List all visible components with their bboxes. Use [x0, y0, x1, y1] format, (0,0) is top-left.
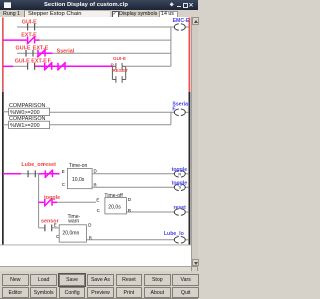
- svg-text:R: R: [128, 208, 131, 213]
- svg-text:EMC-E: EMC-E: [173, 18, 190, 24]
- svg-text:toggle: toggle: [44, 195, 60, 201]
- svg-text:reset: reset: [43, 162, 56, 168]
- svg-text:20,0s: 20,0s: [108, 204, 121, 210]
- svg-text:Sserial: Sserial: [57, 48, 75, 54]
- svg-text:GUI-E: GUI-E: [15, 59, 30, 65]
- svg-text:GUI-E: GUI-E: [113, 56, 126, 61]
- svg-text:E: E: [96, 198, 99, 203]
- svg-text:20,0mn: 20,0mn: [62, 231, 79, 237]
- svg-text:E: E: [54, 222, 57, 227]
- svg-text:%IW0>=200: %IW0>=200: [10, 110, 40, 116]
- svg-text:R: R: [94, 183, 97, 188]
- svg-text:P: P: [111, 62, 114, 67]
- svg-text:Lube_on: Lube_on: [21, 162, 43, 168]
- svg-text:EXT-E: EXT-E: [21, 32, 37, 38]
- svg-text:R: R: [89, 236, 92, 241]
- svg-text:E: E: [62, 169, 65, 174]
- svg-text:10,0s: 10,0s: [72, 177, 85, 183]
- svg-text:C: C: [97, 208, 100, 213]
- svg-text:%IW1>=200: %IW1>=200: [10, 123, 40, 129]
- svg-text:toggle: toggle: [172, 181, 188, 187]
- svg-text:COMPARISON: COMPARISON: [9, 103, 46, 109]
- svg-text:EXT-E: EXT-E: [31, 59, 47, 65]
- svg-text:Time-off: Time-off: [104, 193, 123, 199]
- svg-text:Time-on: Time-on: [69, 163, 88, 169]
- svg-text:Lube_lo: Lube_lo: [164, 231, 184, 237]
- svg-text:D: D: [88, 222, 91, 227]
- svg-text:reset: reset: [174, 205, 187, 211]
- svg-text:GUI-E: GUI-E: [16, 46, 31, 52]
- svg-text:GUI-E: GUI-E: [22, 19, 37, 25]
- svg-text:F: F: [172, 107, 175, 113]
- svg-text:toggle: toggle: [172, 167, 188, 173]
- svg-text:C: C: [56, 234, 59, 239]
- svg-text:RESET: RESET: [112, 68, 128, 73]
- svg-text:D: D: [128, 197, 131, 202]
- svg-text:D: D: [94, 168, 97, 173]
- svg-text:C: C: [62, 182, 65, 187]
- svg-text:sensor: sensor: [41, 219, 60, 225]
- svg-text:EXT-E: EXT-E: [33, 46, 49, 52]
- svg-text:COMPARISON: COMPARISON: [9, 116, 46, 122]
- svg-text:warn: warn: [68, 219, 79, 225]
